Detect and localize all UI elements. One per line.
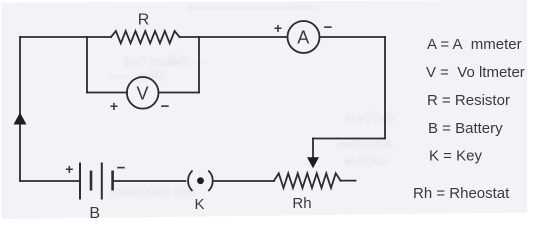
faint bleed-through text (top): [108, 6, 394, 199]
battery B cell plates: [80, 163, 113, 200]
rheostat wiper arrowhead: [307, 157, 319, 168]
svg-text:−: −: [161, 98, 170, 115]
svg-text:noiǕǕǕǕA: noiǕǕǕǕA: [338, 138, 392, 151]
svg-text:R: R: [138, 12, 150, 29]
svg-text:V = Vo ltmeter: V = Vo ltmeter: [426, 64, 525, 81]
resistor R zigzag: [111, 31, 180, 43]
svg-text:+: +: [65, 161, 73, 177]
rheostat Rh zigzag: [274, 173, 341, 188]
current direction arrow on left wire: [14, 113, 27, 125]
wire: battery B to key K: [114, 180, 186, 182]
svg-text:boℐ nodễO —: boℐ nodễO —: [125, 54, 205, 69]
wire: key K to rheostat Rh: [215, 180, 275, 182]
wire: top horizontal from left corner to resistor R: [20, 36, 111, 38]
svg-text:−: −: [324, 19, 333, 36]
wire: right vertical down from ammeter branch: [384, 37, 386, 139]
wire: ammeter A to right corner: [320, 36, 386, 38]
svg-text:V: V: [136, 83, 148, 103]
svg-text:K = Key: K = Key: [429, 148, 482, 165]
svg-text:R = Resistor: R = Resistor: [427, 92, 510, 109]
svg-text:ǕǕeǕǕǕoǕ eǕǕ: ǕǕeǕǕǕoǕ eǕǕ: [110, 186, 195, 199]
svg-text:A: A: [297, 27, 309, 47]
svg-text:+: +: [274, 20, 282, 36]
voltmeter V body circle: [127, 77, 159, 109]
svg-text:B = Battery: B = Battery: [428, 120, 503, 137]
svg-text:lo eǕǕeǕ: lo eǕǕeǕ: [346, 112, 394, 125]
svg-text:Rh = Rheostat: Rh = Rheostat: [413, 185, 510, 202]
wire: resistor R to ammeter A: [180, 36, 288, 38]
wire: rheostat Rh right open end: [341, 180, 356, 182]
wire: horizontal to rheostat wiper: [313, 138, 385, 140]
svg-text:ebǕǕǕo: ebǕǕǕo: [345, 155, 387, 168]
wire: voltmeter branch left: [87, 92, 127, 94]
wire: voltmeter branch right: [159, 92, 200, 94]
svg-text:Rh: Rh: [292, 195, 311, 212]
svg-text:K: K: [194, 196, 204, 213]
svg-text:B: B: [89, 205, 100, 222]
svg-text:−: −: [117, 160, 126, 177]
ammeter A body circle: [288, 21, 320, 53]
svg-text:A = A mmeter: A = A mmeter: [427, 36, 522, 53]
wire: bottom from left corner to battery B: [20, 180, 79, 182]
key K plug symbol ( • ): [188, 171, 213, 192]
parallel branch left vertical wire: [86, 37, 88, 93]
wire: left vertical (battery + to top-left corner): [19, 37, 21, 181]
svg-text:+: +: [110, 98, 118, 114]
svg-text:—— obễǓ: —— obễǓ: [108, 68, 164, 83]
parallel branch right vertical wire: [198, 37, 200, 93]
wire: rheostat wiper vertical: [312, 139, 314, 159]
